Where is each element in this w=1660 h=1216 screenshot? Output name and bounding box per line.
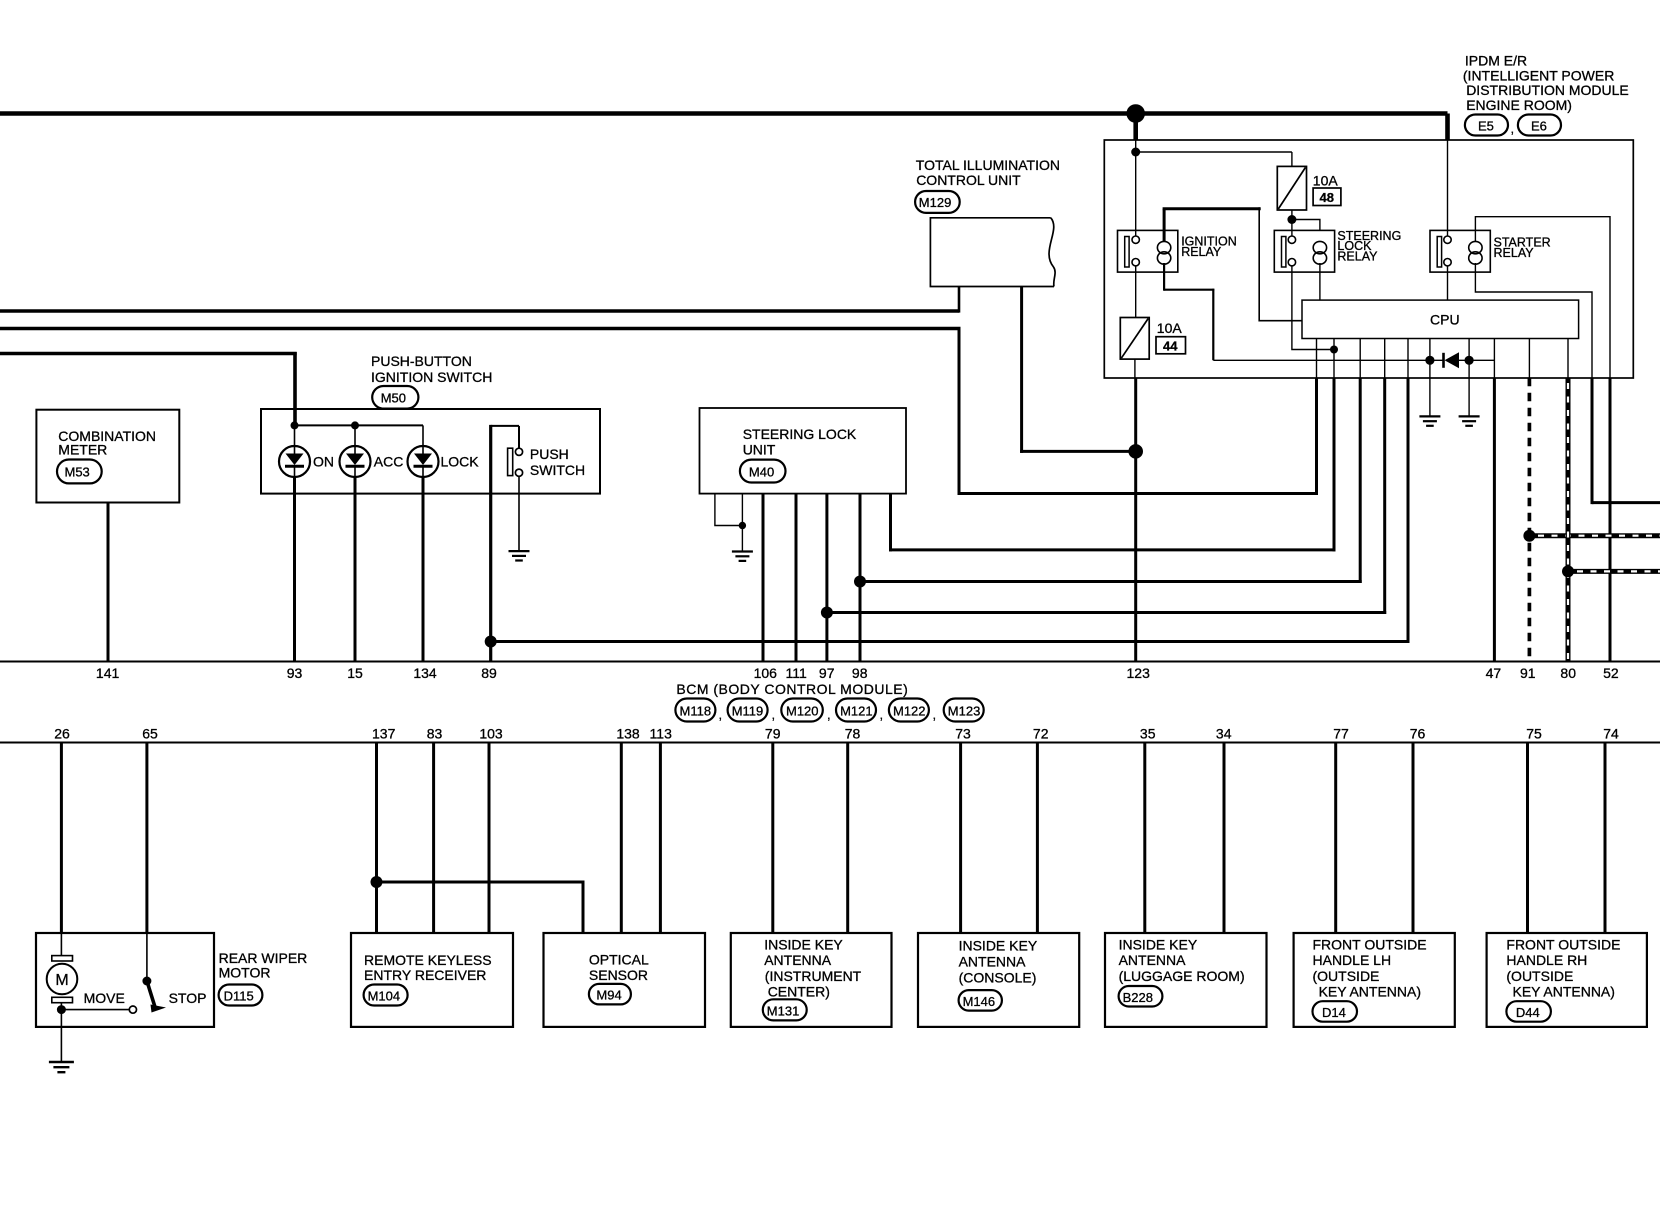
svg-text:(OUTSIDE: (OUTSIDE [1313,968,1380,984]
wire: pin 74 [1604,743,1607,934]
fuse 48 [1277,166,1306,210]
svg-text:35: 35 [1140,726,1156,742]
IPDM E/R box [1104,140,1633,378]
remote keyless entry receiver M104 box [351,933,513,1027]
ground (wiper motor) [49,1062,74,1072]
junction dot pin 91 branch [1523,530,1535,542]
wire: branch 137 to optical sensor [377,882,584,933]
steering lock relay symbol [1274,230,1334,272]
svg-text:ANTENNA: ANTENNA [959,954,1027,970]
svg-text:ANTENNA: ANTENNA [1119,952,1187,968]
svg-text:INSIDE KEY: INSIDE KEY [764,936,843,952]
svg-text:IPDM E/R: IPDM E/R [1465,53,1527,69]
push switch symbol [508,448,513,475]
svg-text:44: 44 [1163,339,1178,354]
svg-text:CONTROL UNIT: CONTROL UNIT [916,172,1021,188]
svg-text:M129: M129 [919,195,952,210]
svg-text:PUSH: PUSH [530,446,569,462]
svg-text:141: 141 [96,665,120,681]
svg-text:91: 91 [1520,665,1536,681]
push-button ignition switch M50 box [261,409,600,494]
svg-text:,: , [827,707,831,722]
svg-text:(LUGGAGE ROOM): (LUGGAGE ROOM) [1119,968,1245,984]
wire: pin 89 vertical [489,425,492,662]
svg-text:93: 93 [287,665,303,681]
wire: M40 pin 106 [762,494,765,662]
total illumination control unit M129 box (torn right edge) [930,218,1054,287]
fuse 44 [1120,318,1149,360]
svg-text:,: , [880,707,884,722]
svg-text:LOCK: LOCK [441,454,480,470]
svg-text:76: 76 [1410,726,1426,742]
diode lamp LOCK [422,425,424,446]
svg-text:BCM (BODY CONTROL MODULE): BCM (BODY CONTROL MODULE) [676,681,908,697]
svg-text:D44: D44 [1516,1005,1540,1020]
wire: pin 65 [145,743,148,934]
svg-text:KEY ANTENNA): KEY ANTENNA) [1319,984,1421,1000]
wire: ignition relay coil bottom to diode line [1163,263,1165,291]
svg-text:138: 138 [616,726,640,742]
svg-text:77: 77 [1333,726,1349,742]
wire: bus D (to push-button ignition switch) [0,352,297,356]
wire: M40 pin 111 [795,494,798,662]
wire: bus drop into IPDM to starter relay [1445,114,1450,141]
svg-text:FRONT OUTSIDE: FRONT OUTSIDE [1506,936,1620,952]
wire: steering relay contact bottom to CPU pin [1292,266,1334,350]
wire: CPU pin 1360 to pin 98 wire [1359,339,1361,378]
wire: pin 76 [1412,743,1415,934]
connector M53 oval [57,460,102,484]
svg-text:MOVE: MOVE [84,990,125,1006]
ground (IPDM right) [1459,416,1480,425]
connector M94 oval [589,984,631,1005]
wire: pin 83 [432,743,435,934]
svg-text:DISTRIBUTION MODULE: DISTRIBUTION MODULE [1466,82,1629,98]
svg-text:,: , [772,707,776,722]
wire: bus drop at 1135 into IPDM [1133,114,1138,141]
wire: pin 78 [846,743,849,934]
wire: feed to fuse 48 [1136,151,1292,153]
svg-text:FRONT OUTSIDE: FRONT OUTSIDE [1313,936,1427,952]
svg-text:34: 34 [1216,726,1232,742]
svg-text:SENSOR: SENSOR [589,967,648,983]
junction dot pin 89 branch [485,636,497,648]
rear wiper motor D115 box [36,933,214,1027]
wire: pin 35 [1143,743,1146,934]
svg-text:137: 137 [372,726,396,742]
junction dot on pin 97 wire [821,607,833,619]
connector D115 oval [219,985,263,1006]
connector M50 oval [372,386,418,409]
wire: CPU diode right leg [1468,339,1470,417]
wire: shielded branch to right edge at y571 [1568,569,1660,574]
wire: ignition relay coil top loop to CPU left [1163,209,1166,242]
svg-text:26: 26 [54,726,70,742]
connector M119 oval [728,699,768,722]
svg-text:97: 97 [819,665,835,681]
junction dot below fuse 48 [1287,215,1296,224]
svg-text:MOTOR: MOTOR [219,964,271,980]
wire: M40 pin 5 [889,494,892,552]
wire: M50 pin 15 [354,477,357,662]
svg-text:ACC: ACC [374,454,404,470]
svg-text:OPTICAL: OPTICAL [589,951,649,967]
svg-text:D14: D14 [1322,1005,1346,1020]
front outside handle LH D14 box [1294,933,1455,1027]
svg-text:M50: M50 [381,391,406,406]
svg-text:75: 75 [1526,726,1542,742]
wire: M50 pin 134 [422,477,425,662]
svg-text:10A: 10A [1313,173,1339,189]
svg-text:ENGINE ROOM): ENGINE ROOM) [1466,97,1572,113]
wire: push switch top to pin 89 [518,426,520,448]
connector M123 oval [944,699,984,722]
svg-text:106: 106 [754,665,778,681]
svg-text:83: 83 [427,726,443,742]
svg-text:,: , [719,707,723,722]
ignition relay symbol [1118,230,1178,272]
CPU box [1302,300,1579,338]
svg-text:M123: M123 [948,704,981,719]
svg-text:111: 111 [786,665,807,681]
junction dot diode right [1465,356,1474,365]
svg-text:ANTENNA: ANTENNA [764,952,832,968]
svg-text:73: 73 [955,726,971,742]
connector E5 oval [1465,115,1508,136]
wire: bus B (to M129 left pin) [0,309,959,312]
svg-text:METER: METER [58,441,107,457]
svg-text:123: 123 [1127,665,1151,681]
optical sensor M94 box [544,933,706,1027]
connector D44 oval [1506,1001,1551,1022]
wire: BCM pin 91 dashed from CPU [1528,339,1530,378]
svg-text:52: 52 [1603,665,1619,681]
svg-text:,: , [933,707,937,722]
wire: starter relay coil bottom to right edge [1475,263,1592,378]
wire: motor bottom to junction [60,1003,62,1027]
diode lamp ON [294,425,296,446]
junction dot pin 80 branch [1562,565,1574,577]
svg-text:48: 48 [1320,190,1334,205]
svg-text:INSIDE KEY: INSIDE KEY [959,938,1038,954]
MOVE open contact [129,1006,136,1013]
svg-text:INSIDE KEY: INSIDE KEY [1119,936,1198,952]
wire: pin 34 [1223,743,1226,934]
svg-text:65: 65 [142,726,158,742]
svg-text:E6: E6 [1531,119,1547,134]
BCM top line [0,660,1660,662]
svg-text:ENTRY RECEIVER: ENTRY RECEIVER [364,967,486,983]
svg-text:ON: ON [313,454,334,470]
inside key antenna (instrument center) M131 box [731,933,892,1027]
svg-text:10A: 10A [1157,320,1183,336]
wire: motor feed inside box [60,933,62,956]
svg-text:M53: M53 [65,465,90,480]
svg-text:M146: M146 [963,994,996,1009]
svg-text:RELAY: RELAY [1337,250,1378,264]
wire: M129 right pin down to junction [1020,287,1023,453]
svg-text:M118: M118 [680,704,712,719]
wire: wiper park switch feed [146,933,148,978]
wire: CPU pin 1408 to pin 89 wire [1407,339,1409,378]
svg-text:SWITCH: SWITCH [530,462,585,478]
svg-text:M131: M131 [767,1003,800,1018]
svg-text:(CONSOLE): (CONSOLE) [959,970,1037,986]
inside key antenna (luggage room) B228 box [1105,933,1267,1027]
diode symbol [1442,353,1445,368]
svg-text:D115: D115 [224,989,254,1004]
wire: pin 26 [60,743,63,934]
junction dot feed to fuse 48 [1131,148,1140,157]
wire: ignition relay contact bottom to fuse 44 [1135,266,1137,318]
wire: starter relay contact bottom to CPU top [1447,266,1449,300]
connector B228 oval [1119,986,1163,1007]
wire: M50 pin 93 [293,477,296,662]
svg-text:REMOTE KEYLESS: REMOTE KEYLESS [364,952,492,968]
svg-text:CPU: CPU [1430,312,1460,328]
junction dot at CPU pin 1334 [1330,346,1338,354]
wire: M40 ground pins [715,494,743,526]
junction dot at 1135/451 [1128,444,1143,459]
wire: push switch bottom to ground [518,476,520,551]
svg-text:M: M [55,972,68,989]
wire: CPU diode left leg [1429,339,1431,417]
connector M146 oval [959,990,1002,1011]
svg-text:E5: E5 [1478,119,1494,134]
wire: M53 pin 141 to BCM [107,503,110,662]
park switch lever [142,977,151,986]
motor M [47,964,78,995]
svg-text:PUSH-BUTTON: PUSH-BUTTON [371,353,472,369]
connector M104 oval [364,985,408,1006]
svg-text:STEERING LOCK: STEERING LOCK [743,426,857,442]
connector M118 oval [675,699,715,722]
wire: bus C (to CPU pin via y493) [0,327,961,330]
svg-text:15: 15 [347,665,363,681]
svg-text:KEY ANTENNA): KEY ANTENNA) [1513,984,1615,1000]
starter relay symbol [1430,230,1490,272]
connector M121 oval [836,699,876,722]
wire: pin 73 [959,743,962,934]
svg-text:134: 134 [413,665,437,681]
wire: starter relay coil top loop to BCM pin 52 [1475,217,1610,378]
wire: wiper ground [60,1027,62,1062]
inside key antenna (console) M146 box [918,933,1079,1027]
BCM bottom line [0,741,1660,743]
BCM pin labels bottom row [54,726,1619,742]
wire: steering relay coil bottom to CPU top [1319,263,1321,300]
wire: pin 72 [1036,743,1039,934]
svg-text:103: 103 [479,726,503,742]
svg-text:113: 113 [650,726,673,742]
connector M131 oval [763,999,807,1020]
front outside handle RH D44 box [1487,933,1647,1027]
svg-text:(INSTRUMENT: (INSTRUMENT [765,968,862,984]
wire: pin 79 [771,743,774,934]
wire: M40 pin 98 [859,494,862,662]
svg-text:(OUTSIDE: (OUTSIDE [1506,968,1573,984]
wire: fuse 44 bottom to BCM pin 123 [1134,359,1136,378]
svg-text:RELAY: RELAY [1494,246,1535,260]
wire: BCM pin 80 shielded from CPU [1567,339,1569,378]
wire: top power bus [0,111,1448,116]
svg-text:M40: M40 [749,465,774,480]
junction dot pin 137 branch [371,876,383,888]
wire: CPU pin 1385 to pin 97 wire [1384,339,1386,378]
wire: pin 138 [620,743,623,934]
svg-text:M104: M104 [368,989,401,1004]
svg-text:HANDLE RH: HANDLE RH [1506,952,1587,968]
svg-text:M122: M122 [893,704,926,719]
svg-text:M119: M119 [732,704,764,719]
svg-text:79: 79 [765,726,781,742]
wire: MOVE contact line [61,1009,129,1011]
svg-text:72: 72 [1033,726,1049,742]
svg-text:(INTELLIGENT POWER: (INTELLIGENT POWER [1463,67,1614,83]
svg-text:HANDLE LH: HANDLE LH [1313,952,1392,968]
wire: pin 103 [488,743,491,934]
wire: CPU pin 1334 down to M40 pin row [1333,339,1335,378]
wire: fuse 48 bottom [1291,210,1293,237]
svg-text:M94: M94 [596,988,621,1003]
wire: M40 pin 97 [825,494,828,662]
svg-text:,: , [1511,121,1515,136]
svg-text:47: 47 [1486,665,1502,681]
svg-text:89: 89 [481,665,497,681]
ground (push switch) [509,551,530,560]
junction dot diode left [1425,356,1434,365]
wire: starter relay contact top to IPDM top [1447,140,1449,237]
wire: feed rail inside M50 [295,424,424,426]
wire: pin 137 [375,743,378,934]
svg-text:STOP: STOP [169,990,207,1006]
wire: branch to steering lock relay coil [1292,220,1320,231]
svg-text:CENTER): CENTER) [768,984,830,1000]
BCM pin labels top row [96,665,1619,681]
svg-text:M121: M121 [840,704,873,719]
wire: diode link line [1213,359,1443,361]
wire: pin 75 [1526,743,1529,934]
steering lock unit M40 box [700,408,907,494]
motor brush bottom [52,997,73,1002]
wire: pin 113 [659,743,662,934]
junction dot on pin 98 wire [854,576,866,588]
svg-text:IGNITION SWITCH: IGNITION SWITCH [371,369,492,385]
svg-text:TOTAL ILLUMINATION: TOTAL ILLUMINATION [916,157,1060,173]
connector E6 oval [1518,115,1561,136]
diode lamp ACC [354,425,356,446]
svg-text:74: 74 [1603,726,1619,742]
svg-text:RELAY: RELAY [1181,245,1222,259]
connector M129 oval [915,191,960,213]
junction dot on top bus [1126,104,1145,123]
svg-text:B228: B228 [1123,990,1153,1005]
connector M40 oval [740,460,786,483]
wire: shielded branch to right edge at y536 [1529,533,1660,538]
combination meter M53 box [36,410,179,503]
wire: 1135 vertical inside IPDM to ignition relay [1135,140,1137,237]
connector D14 oval [1313,1001,1358,1022]
connector M120 oval [781,699,823,722]
svg-text:80: 80 [1560,665,1576,681]
svg-text:UNIT: UNIT [743,441,776,457]
ground (M40) [732,552,753,561]
connector M122 oval [889,699,929,722]
svg-text:78: 78 [845,726,861,742]
svg-text:98: 98 [852,665,868,681]
ground (IPDM left) [1419,416,1440,425]
wire: pin 77 [1334,743,1337,934]
svg-text:M120: M120 [786,704,819,719]
wire: BCM pin 47 from CPU [1493,339,1495,378]
motor brush top [52,956,73,961]
